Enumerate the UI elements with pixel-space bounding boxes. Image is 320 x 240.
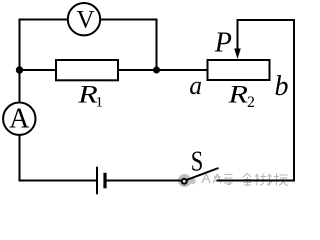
wire: node A to resistor R1 left [20,69,57,71]
label R2 [227,82,255,112]
wire: battery to switch pivot [106,180,181,182]
wiper arrow of R2 [234,20,241,59]
wire: voltmeter right to junction node [101,20,157,71]
voltmeter U1 (V) [68,3,100,35]
wire: wiper P lead to right rail down to bottom [238,20,295,181]
svg-text:S: S [191,146,204,178]
resistor R1 [56,60,118,80]
svg-text:a: a [189,71,202,100]
label R1 [77,82,103,111]
watermark logo circle [178,174,196,187]
svg-text:1: 1 [96,95,104,111]
wire: switch to bottom-right corner [217,180,296,182]
svg-text:A: A [9,103,30,134]
watermark text 余杭科学 (drawn as gray glyph-like strokes) [243,174,288,186]
watermark text 公众号 (drawn as gray glyph-like strokes) [202,174,233,185]
svg-text:R: R [227,82,248,109]
node: junction dot right (voltmeter branch) [153,67,160,74]
rheostat R2 body [208,60,270,80]
switch S [182,168,219,184]
svg-text:V: V [76,7,94,34]
battery BT1 [97,167,105,195]
wire: left rail bottom from ammeter to battery [20,135,97,181]
svg-text:P: P [214,27,232,58]
svg-text:b: b [275,71,289,102]
node: junction dot left (at ammeter branch) [16,66,23,73]
wire: left rail top + top wire to voltmeter [20,20,68,103]
svg-text:2: 2 [247,94,255,111]
ammeter U2 (A) [3,103,35,135]
wire: resistor R1 right to rheostat R2 terminal a [118,69,208,71]
